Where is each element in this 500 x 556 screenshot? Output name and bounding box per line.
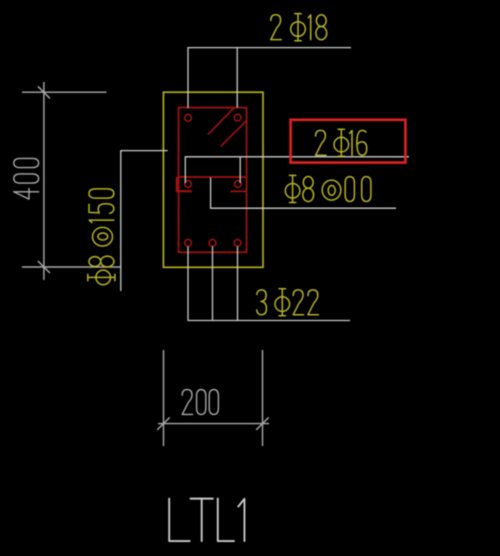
rebar top-right	[234, 114, 241, 121]
stirrup outer rectangle	[179, 108, 247, 253]
diagonal hatch 2	[221, 120, 247, 146]
stirrup mid horizontal bar	[179, 176, 247, 178]
stirrup right hook	[231, 190, 247, 192]
rebar top-left	[185, 114, 192, 121]
dimension 200 tick left	[157, 418, 169, 430]
dimension 400 top extension	[22, 91, 107, 93]
dimension text 200	[182, 390, 218, 415]
dimension 400 line	[43, 82, 45, 280]
rebar mid-left	[185, 181, 192, 188]
dimension 200 right extension	[262, 350, 264, 446]
dimension 400 tick top	[38, 86, 50, 98]
label phi8@00	[285, 175, 371, 202]
diagonal hatch 1	[208, 108, 234, 134]
section outline (yellow concrete boundary)	[163, 92, 263, 267]
label 2phi18	[271, 14, 327, 41]
leader phi8@00	[211, 178, 396, 209]
rebar bottom-middle	[209, 240, 216, 247]
dimension 200 left extension	[163, 350, 165, 446]
rebar mid-right	[234, 181, 241, 188]
dimension 400 bottom extension	[22, 266, 120, 268]
leader 2phi16 mid bracket	[185, 157, 409, 183]
label 3phi22	[257, 289, 319, 316]
highlight box around 2phi16	[291, 120, 406, 163]
leader 3phi22 bottom	[187, 247, 189, 321]
dimension 400 tick bottom	[38, 261, 50, 273]
dimension 200 tick right	[256, 418, 268, 430]
dimension text 400 (rotated)	[14, 158, 39, 199]
title LTL1	[169, 499, 244, 541]
label phi8@150 (rotated)	[88, 189, 115, 285]
dimension 200 line	[158, 423, 269, 425]
rebar bottom-right	[234, 240, 241, 247]
stirrup left hook	[177, 177, 192, 191]
leader 2phi18 top	[188, 48, 351, 108]
rebar bottom-left	[185, 240, 192, 247]
label 2phi16	[316, 129, 367, 156]
leader phi8@150	[121, 151, 168, 291]
